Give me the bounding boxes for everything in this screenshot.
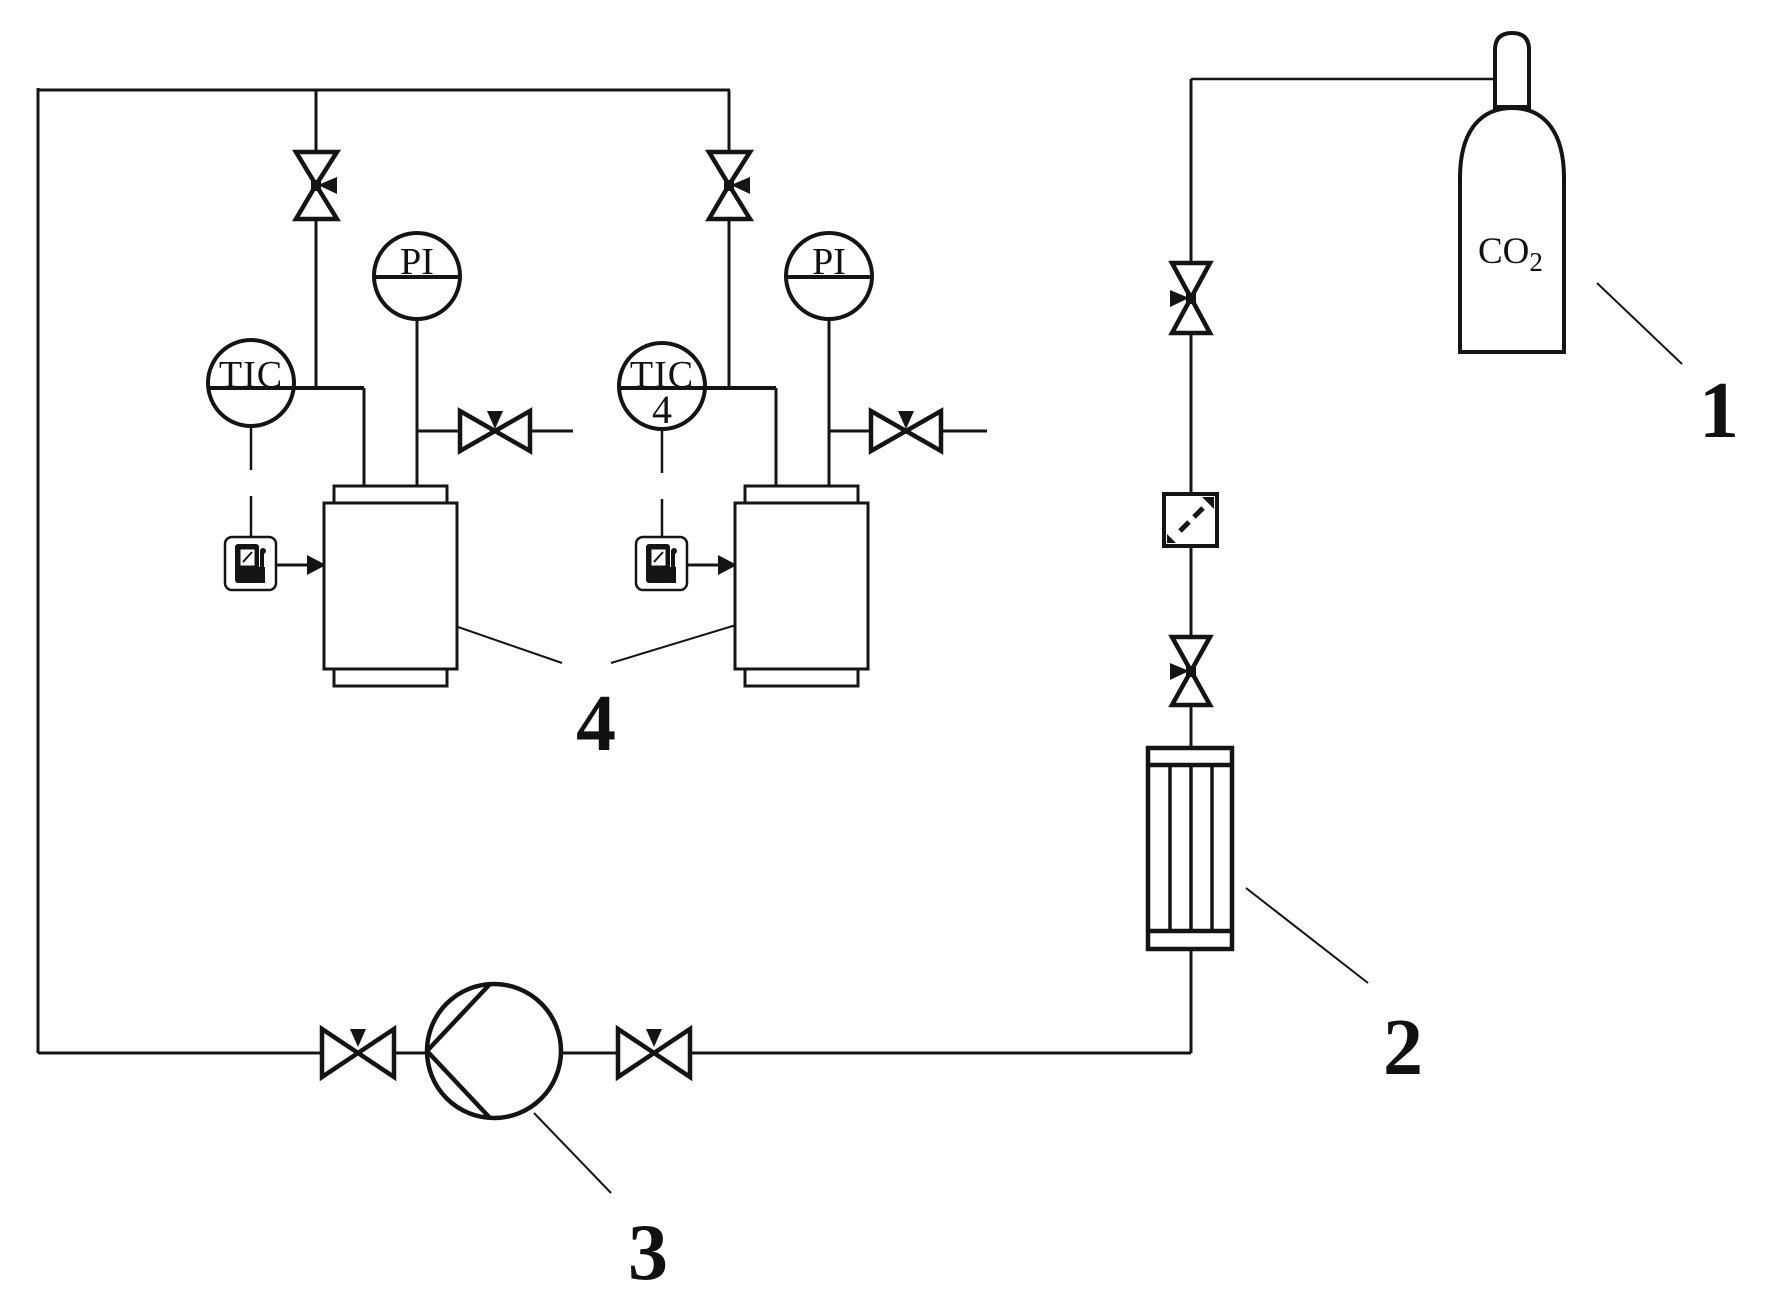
wire PI-left stem — [416, 319, 419, 487]
wire branch B upper — [728, 90, 731, 153]
wire branch A upper — [315, 90, 318, 153]
wire vent outlet right — [941, 430, 987, 433]
wire PI-right stem — [828, 319, 831, 487]
leader line to label 3 — [534, 1113, 611, 1193]
CO2 cylinder body — [1460, 108, 1564, 352]
svg-text:4: 4 — [652, 387, 672, 432]
heat exchanger — [1148, 748, 1232, 949]
svg-text:2: 2 — [1383, 1004, 1423, 1092]
leader line to label 4 (left) — [458, 627, 562, 663]
wire right vertical segment 5 — [1190, 949, 1193, 1053]
valve V-B (vertical globe valve) — [709, 152, 750, 219]
valve V-F (vertical globe valve) — [1170, 637, 1210, 705]
vessel left (reactor) — [324, 486, 457, 686]
wire right vertical segment 3 — [1190, 546, 1193, 638]
instrument TIC right (temperature controller) — [619, 343, 776, 429]
instrument PI left (pressure indicator) — [374, 233, 460, 319]
svg-text:3: 3 — [628, 1209, 668, 1292]
heater icon right — [636, 537, 687, 590]
wire top-left header — [38, 89, 730, 92]
instrument TIC left (temperature controller) — [208, 340, 364, 426]
filter (square with diagonal) — [1164, 494, 1217, 546]
arrow heater-left to vessel — [276, 564, 309, 567]
wire vent outlet left — [530, 430, 573, 433]
wire TIC-right to vessel — [775, 388, 778, 487]
wire TIC-right signal (dashed) — [661, 430, 664, 537]
wire TIC-left signal (dashed) — [250, 427, 253, 537]
valve V-G (pump suction valve) — [322, 1029, 394, 1077]
vessel right (reactor) — [735, 486, 868, 686]
wire vent branch left — [417, 430, 460, 433]
pump (circle with chords) — [427, 984, 561, 1118]
valve V-A (vertical globe valve) — [296, 152, 337, 219]
heater icon left — [225, 537, 276, 590]
wire vent branch right — [829, 430, 871, 433]
valve V-E (vertical globe valve on CO2 line) — [1170, 263, 1210, 333]
svg-text:TIC: TIC — [219, 354, 283, 396]
valve V-H (pump discharge valve) — [618, 1029, 690, 1077]
svg-text:PI: PI — [400, 241, 434, 283]
wire top-right header — [1191, 78, 1495, 81]
arrow heater-right to vessel — [687, 564, 720, 567]
wire left vertical — [37, 88, 40, 1053]
wire right vertical segment 1 — [1190, 79, 1193, 264]
leader line to label 1 — [1597, 283, 1682, 364]
wire right vertical segment 2 — [1190, 332, 1193, 496]
wire branch B lower — [728, 218, 731, 388]
wire right vertical segment 4 — [1190, 704, 1193, 749]
valve V-C (horizontal globe valve) — [460, 411, 530, 451]
wire branch A lower — [315, 218, 318, 388]
leader line to label 2 — [1246, 888, 1368, 983]
wire bottom horizontal — [38, 1052, 1191, 1055]
svg-text:4: 4 — [576, 680, 616, 768]
svg-text:1: 1 — [1699, 367, 1739, 455]
svg-text:PI: PI — [812, 241, 846, 283]
instrument PI right (pressure indicator) — [786, 233, 872, 319]
valve V-D (horizontal globe valve) — [871, 411, 941, 451]
wire TIC-left to vessel — [363, 388, 366, 487]
CO2 cylinder neck — [1495, 33, 1529, 107]
leader line to label 4 (right) — [611, 625, 736, 663]
